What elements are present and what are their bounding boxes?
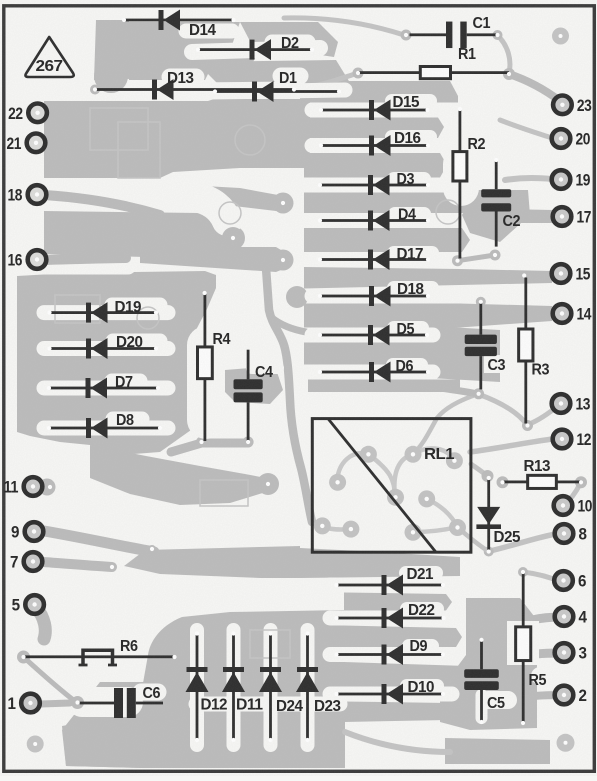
wire C3 junction to relay pin trace: [413, 394, 478, 454]
wire junction pads top right: [401, 30, 412, 41]
wire copper C3 blob: [430, 326, 500, 382]
wire junction dots below R2 C2: [458, 255, 496, 261]
wire diagonal from R6-left to C6-left junction: [24, 657, 77, 702]
pad 22: [8, 104, 47, 123]
wire R13 end pads and D25 junctions: [497, 476, 509, 488]
pad 2: [555, 686, 587, 705]
diode D11: [222, 634, 263, 741]
wire relay pin pad: [418, 490, 435, 507]
diode D4: [320, 207, 428, 232]
wire trace between R4 and C4 bottom junctions: [171, 443, 248, 452]
diode D12: [186, 634, 228, 741]
wire copper strip under D14 lead: [94, 20, 158, 80]
wire to pad 3: [536, 653, 562, 654]
pad 14: [553, 304, 592, 323]
diode D23: [296, 634, 341, 741]
wire copper band below D14 lead: [129, 22, 262, 80]
diode D20: [50, 334, 157, 359]
wire copper descending trace: [266, 268, 312, 522]
wire relay internal traces: [337, 453, 368, 482]
wire copper band above D2 lead right part: [240, 22, 338, 57]
wire pad1 to C6 junction: [41, 703, 70, 704]
wire to pad 2: [534, 695, 562, 696]
wire stray pad bottom-right: [557, 734, 575, 752]
pad 7: [10, 552, 42, 571]
pad 3: [555, 643, 587, 662]
pad 9: [11, 522, 43, 541]
diode D10: [337, 679, 444, 705]
wire copper band left of relay bottom: [124, 546, 300, 578]
wire copper wedge D16-D3: [304, 153, 447, 178]
diode D15: [321, 94, 428, 121]
wire relay pin pad: [360, 446, 377, 463]
pad 6: [554, 571, 586, 590]
wire from pad 7: [44, 562, 112, 567]
wire relay pin pad: [405, 524, 422, 541]
pad 4: [555, 607, 588, 626]
pad 18: [8, 185, 47, 204]
wire to pad 8: [490, 534, 556, 551]
resistor R3: [519, 278, 550, 424]
pad 21: [7, 134, 46, 153]
pad 5: [12, 595, 44, 614]
wire from pad 16: [44, 258, 126, 260]
diode D5: [320, 321, 427, 346]
wire copper blob around C2: [462, 190, 530, 242]
wire copper wedge D18-D5 merging band to pad 14: [304, 304, 552, 328]
pad 8: [555, 524, 587, 543]
pad 15: [552, 264, 591, 283]
diode D18: [320, 281, 428, 307]
diode D2: [198, 35, 312, 60]
wire copper wedge above D21 below relay: [300, 548, 460, 578]
wire C3-bottom to R3-bottom to pad 13: [478, 394, 560, 425]
capacitor C3: [465, 302, 506, 390]
wire to pad 20: [500, 120, 552, 138]
wire pad 11 blob: [39, 479, 56, 496]
capacitor C2: [481, 160, 520, 247]
wire copper wedge D5-D6: [304, 343, 500, 365]
capacitor C5: [464, 640, 505, 722]
pad 12: [553, 430, 592, 449]
resistor R5: [516, 572, 547, 723]
wire copper C4 blob: [225, 368, 283, 404]
wire to pad 19: [505, 178, 553, 180]
diode D7: [49, 374, 158, 399]
wire from pad 9: [44, 531, 154, 552]
resistor R4: [198, 293, 231, 441]
wire to pad 17: [500, 209, 553, 223]
capacitor C6: [80, 685, 163, 718]
wire from pad 18: [44, 195, 160, 215]
wire R13 right to pad 10: [564, 484, 580, 505]
diode D17: [320, 246, 428, 270]
diode D25: [476, 478, 520, 552]
resistor R6: [24, 638, 175, 666]
marker triangle 267: [25, 37, 73, 77]
wire thin trace pour to bottom band: [345, 732, 450, 752]
pad 11: [4, 477, 43, 496]
wire copper tongue to dot 272,484: [90, 445, 266, 505]
resistor R2: [453, 109, 486, 259]
pad 19: [552, 170, 591, 189]
pad 17: [553, 207, 592, 226]
wire relay pin pad: [342, 521, 359, 538]
wire copper wedge above D15: [300, 81, 458, 103]
wire copper band between D2 and D1 leads: [196, 60, 352, 98]
wire copper wedge D15-D16: [304, 118, 444, 139]
diode D19: [50, 299, 157, 323]
wire copper left pour around D19-D8: [17, 271, 216, 455]
diode D14: [124, 10, 234, 40]
wire small junction pads: [90, 85, 100, 95]
wire copper main top-left pour: [44, 99, 310, 178]
wire copper wedge D22-D9: [344, 626, 462, 648]
wire R1 left lead trace: [300, 73, 358, 86]
diode D16: [321, 130, 428, 156]
wire D25 bottom to pour: [458, 528, 489, 552]
relay RL1: [312, 419, 471, 553]
wire R6 right pad dot: [168, 651, 181, 664]
wire copper finger to dot at 292,202: [150, 183, 286, 211]
wire copper finger to dot at 290,260: [140, 247, 286, 272]
wire copper pour west extension around C6: [62, 682, 145, 768]
wire copper band below pad-18 channel: [44, 211, 240, 258]
wire relay pin pad: [387, 489, 404, 506]
pad 23: [553, 96, 592, 115]
wire relay pin pad: [329, 474, 346, 491]
wire D25 top junction trace: [471, 464, 487, 476]
wire R6 left pad dot: [17, 651, 30, 664]
wire branch to central pour: [272, 318, 306, 332]
wire trace from pour to C3 bottom junction: [440, 388, 478, 394]
diode D3: [320, 171, 428, 196]
wire copper wedge D3-D4: [304, 193, 470, 214]
wire stray pad top-right: [552, 28, 569, 45]
resistor R1: [358, 46, 509, 79]
wire to pad 23: [509, 74, 560, 101]
wire to pad 6: [523, 572, 561, 582]
wire C1 left toward top-left: [284, 18, 404, 35]
wire copper bottom-center pour: [140, 610, 345, 768]
capacitor C1: [410, 15, 498, 48]
wire band2 tip: [222, 227, 244, 249]
diode D8: [49, 412, 160, 439]
wire from pad 5 down to R6 pocket: [36, 607, 45, 639]
diode D1: [215, 70, 339, 102]
wire copper wedge below D10: [344, 702, 448, 723]
wire copper wedge below D6: [308, 380, 460, 393]
wire to pad 4: [532, 617, 562, 620]
wire copper pour around C5/R5: [440, 598, 537, 730]
wire copper bottom band left piece: [62, 712, 140, 768]
wire relay pin pad: [449, 519, 466, 536]
diode D22: [337, 602, 444, 629]
wire stray pad bottom-left: [27, 736, 44, 753]
pad 20: [552, 129, 591, 148]
wire relay pin pad: [446, 452, 463, 469]
pad 16: [8, 250, 47, 269]
wire copper wedge D9-D10: [344, 662, 537, 687]
wire relay pin pad: [405, 446, 422, 463]
wire copper lobe left of D18 start: [286, 286, 308, 308]
diode D13: [95, 70, 294, 100]
wire copper wedge D17-D18 merging band to pad 15: [304, 267, 552, 289]
wire relay pin pad: [314, 517, 331, 534]
wire C1 right to R1 right junction: [497, 35, 510, 73]
pad 10: [554, 496, 593, 515]
capacitor C4: [234, 350, 274, 441]
wire to pad 12: [470, 439, 553, 452]
pad 1: [8, 694, 40, 713]
pad 13: [552, 394, 591, 413]
wire copper wedge D4-D17: [304, 228, 470, 252]
diode D21: [337, 566, 444, 596]
wire copper wedge D21-D22: [344, 593, 452, 611]
diode D24: [259, 634, 303, 741]
diode D9: [337, 638, 444, 665]
wire copper bottom band right piece: [445, 738, 550, 764]
resistor R13: [503, 458, 582, 488]
diode D6: [320, 358, 428, 383]
